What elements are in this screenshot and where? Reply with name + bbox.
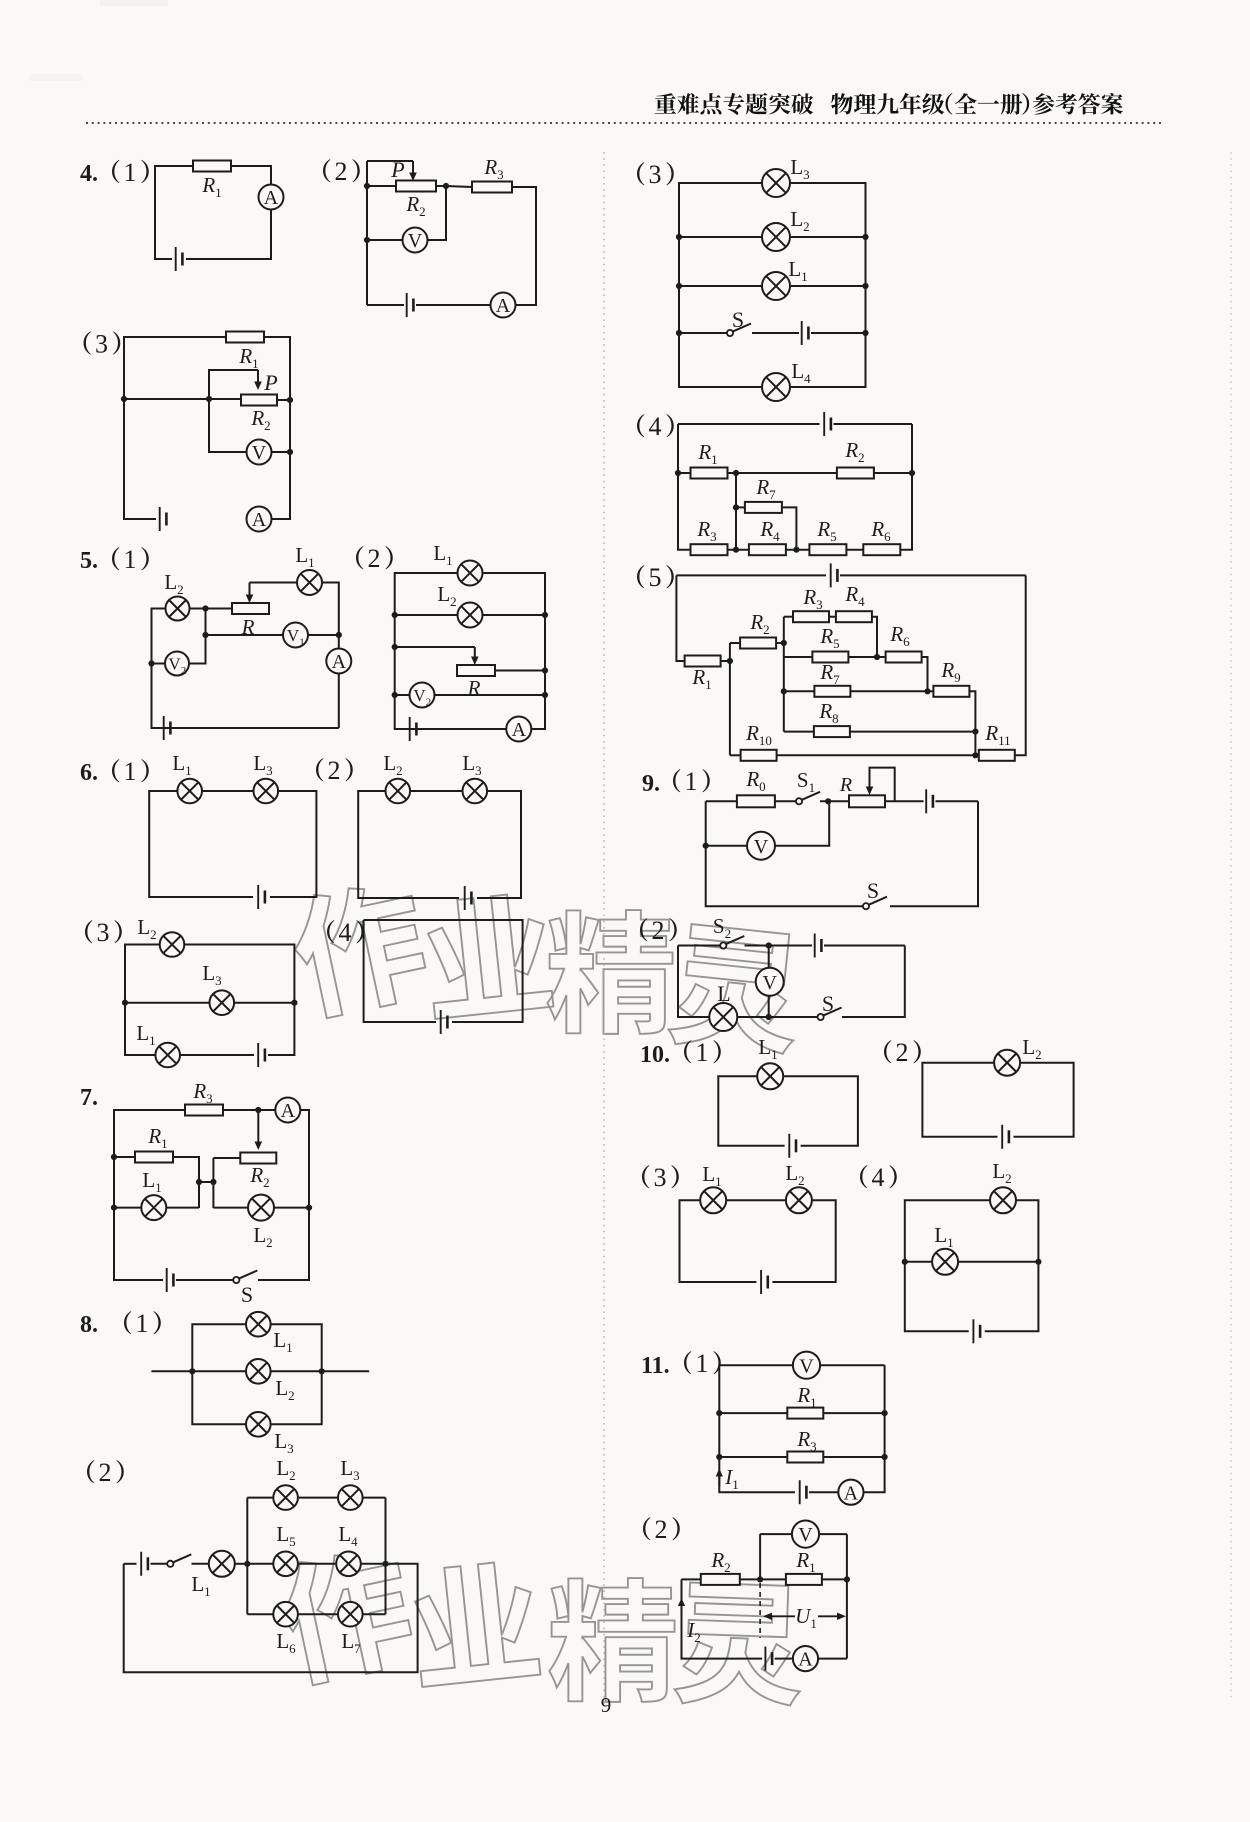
node [202, 632, 208, 638]
svg-text:2: 2 [181, 665, 187, 677]
outer loop [395, 573, 545, 729]
svg-text:8.: 8. [80, 1312, 98, 1338]
resistor R7 [745, 502, 782, 513]
battery [258, 885, 265, 909]
svg-text:4: 4 [872, 1163, 885, 1192]
wire to voltmeter [209, 399, 246, 452]
wire [483, 614, 546, 616]
wire [395, 694, 410, 696]
ammeter A [838, 1480, 863, 1505]
svg-text:2: 2 [99, 1458, 112, 1487]
wire [367, 239, 403, 241]
right side [790, 183, 866, 387]
svg-text:6.: 6. [80, 760, 98, 786]
header title 重难点专题突破 物理九年级(全一册)参考答案 [655, 93, 1123, 115]
wire [192, 1563, 209, 1565]
svg-text:1: 1 [136, 1309, 149, 1338]
slider arrow [246, 583, 254, 604]
wire [230, 166, 271, 185]
node [364, 237, 370, 243]
lamp L3 [210, 990, 235, 1015]
left loop [114, 1110, 185, 1280]
node [882, 1410, 888, 1416]
battery [141, 1552, 148, 1576]
item 10 (2) [884, 1038, 921, 1067]
top wire left [678, 423, 820, 425]
wire [427, 186, 446, 240]
node [675, 470, 681, 476]
ammeter A [247, 507, 272, 532]
wire V bottom [768, 996, 770, 1017]
svg-text:V: V [252, 442, 267, 464]
svg-text:1: 1 [124, 545, 137, 574]
resistor R rheostat [849, 795, 885, 807]
wire [721, 660, 730, 662]
wire [308, 634, 339, 636]
loop left [680, 1200, 757, 1282]
svg-text:4.: 4. [80, 161, 98, 187]
wire [367, 160, 413, 162]
voltmeter V2 [165, 652, 189, 678]
resistor R6 [863, 544, 900, 555]
wire [820, 800, 849, 802]
voltmeter V1 [283, 623, 308, 649]
wire to slider [209, 370, 258, 399]
resistor R3 [691, 544, 728, 555]
wire [885, 800, 924, 802]
wire [811, 332, 866, 334]
ammeter A [275, 1098, 300, 1123]
wire V top [768, 946, 770, 968]
item 5 (2) [356, 544, 393, 573]
resistor R5 [809, 544, 846, 555]
resistor R7 [814, 686, 850, 697]
lamp L1 [209, 1551, 235, 1577]
wire [706, 845, 747, 847]
watermark 作业精灵 (middle) [285, 875, 805, 1056]
node [287, 397, 293, 403]
switch S [863, 897, 887, 910]
lamp L5 [273, 1552, 298, 1577]
right vertical [844, 946, 905, 1018]
wire [784, 656, 812, 658]
node [844, 1576, 850, 1582]
battery [973, 1319, 980, 1343]
jumper [199, 1181, 213, 1183]
battery [407, 293, 414, 317]
wire [824, 945, 905, 947]
lamp L4 [762, 373, 790, 401]
wire [338, 674, 340, 729]
node [766, 942, 772, 948]
ammeter A [506, 717, 531, 742]
slider arrow P [409, 161, 417, 181]
wire [114, 1156, 135, 1158]
wire [364, 920, 523, 1022]
node [972, 752, 978, 758]
svg-text:S: S [822, 991, 834, 1016]
lamp L3 [253, 779, 278, 804]
battery [926, 789, 933, 813]
node [392, 644, 398, 650]
resistor R2 [740, 638, 776, 649]
left side [679, 183, 762, 387]
item 6 (2) [316, 756, 353, 785]
svg-text:5: 5 [649, 563, 662, 592]
svg-text:A: A [512, 719, 527, 741]
U1 annotation [763, 1613, 846, 1620]
node [676, 330, 682, 336]
node [757, 1576, 763, 1582]
left vertical [678, 946, 709, 1018]
item 6 (3) [85, 918, 122, 947]
wire [936, 800, 979, 802]
wire [834, 423, 913, 425]
svg-text:2: 2 [328, 756, 341, 785]
wire [719, 1456, 787, 1458]
svg-text:P: P [263, 370, 277, 395]
slider arrow P [254, 370, 262, 390]
svg-text:A: A [798, 1649, 813, 1671]
wire [186, 210, 271, 259]
current arrow I1 [716, 1469, 723, 1487]
wire [155, 166, 194, 259]
node [121, 396, 127, 402]
switch S [233, 1271, 257, 1284]
svg-text:V: V [754, 836, 769, 858]
right vertical [1015, 575, 1026, 755]
resistor R4 [749, 544, 786, 555]
wire [790, 236, 866, 238]
middle wire right [271, 1370, 370, 1372]
lamp L4 [336, 1552, 361, 1577]
ammeter A [793, 1646, 818, 1671]
node [148, 660, 154, 666]
voltmeter V [747, 832, 775, 860]
node [716, 1410, 722, 1416]
wire [678, 945, 720, 947]
resistor R0 [737, 795, 775, 807]
wire [737, 1016, 817, 1018]
wire V up [775, 801, 829, 845]
battery [765, 1647, 772, 1671]
svg-text:11.: 11. [641, 1353, 670, 1379]
wire [727, 549, 748, 551]
resistor R8 [814, 726, 850, 737]
lamp L2 [990, 1187, 1016, 1213]
battery [410, 717, 417, 741]
wire [786, 549, 809, 551]
battery [815, 934, 822, 958]
wire R9 down [969, 691, 975, 755]
resistor R1 [787, 1408, 823, 1419]
svg-text:S: S [867, 878, 879, 903]
resistor R3 [793, 611, 829, 622]
top wire [676, 574, 826, 576]
wire [361, 1563, 386, 1565]
item 10 (1) [640, 1038, 721, 1068]
lamp L3 [246, 1412, 271, 1437]
resistor R6 [886, 652, 922, 663]
node [306, 1205, 312, 1211]
battery [176, 247, 183, 271]
resistor R2 [396, 181, 436, 192]
lamp L1 [141, 1195, 166, 1220]
wire [166, 1207, 199, 1209]
loop right [1014, 1063, 1074, 1137]
svg-text:5.: 5. [80, 548, 98, 574]
svg-text:3: 3 [95, 329, 108, 358]
svg-text:9.: 9. [642, 771, 660, 797]
node [542, 692, 548, 698]
wire [682, 1578, 701, 1580]
lamp L1 [297, 570, 322, 595]
wire [366, 161, 368, 305]
node [882, 1454, 888, 1460]
wire [823, 1456, 884, 1458]
wire [775, 800, 796, 802]
wire [760, 1533, 792, 1535]
svg-text:A: A [844, 1482, 859, 1504]
item 7 [80, 1085, 98, 1111]
wire [477, 791, 521, 898]
wire to slider [395, 646, 475, 648]
node [291, 1000, 297, 1006]
resistor R2 [240, 1153, 276, 1164]
wire [840, 574, 1026, 576]
header dashed rule [86, 122, 1163, 124]
node [196, 1179, 202, 1185]
item 10 (3) [642, 1163, 679, 1192]
wire R7 down [782, 507, 797, 549]
left vertical [678, 424, 691, 550]
node [364, 183, 370, 189]
item 8 (4) [637, 412, 674, 441]
item 10 (4) [860, 1163, 897, 1192]
svg-text:2: 2 [896, 1038, 909, 1067]
wire to V1 [206, 609, 284, 636]
loop [358, 791, 459, 898]
wire [298, 1613, 338, 1615]
resistor R3 [185, 1105, 223, 1116]
node [206, 396, 212, 402]
item 9 (1) [642, 767, 710, 797]
wire [235, 1563, 248, 1565]
wire [176, 1279, 233, 1281]
resistor R1 [193, 161, 231, 172]
wire [726, 1199, 786, 1201]
item 4 (3) [84, 329, 121, 358]
wire [363, 1613, 386, 1615]
item 4 (1) [80, 158, 149, 187]
lamp L3 [338, 1485, 363, 1510]
lamp L1 [932, 1249, 958, 1275]
resistor R3 [787, 1452, 823, 1463]
node [542, 612, 548, 618]
wire [679, 236, 762, 238]
lamp L [709, 1003, 737, 1031]
svg-text:1: 1 [696, 1349, 709, 1378]
resistor R5 [812, 652, 848, 663]
node [825, 798, 831, 804]
svg-text:V: V [413, 686, 426, 705]
node [733, 470, 739, 476]
lamp L2 [994, 1050, 1020, 1076]
vertical B [783, 617, 785, 732]
wire [298, 1563, 336, 1565]
node [733, 547, 739, 553]
svg-text:A: A [264, 187, 279, 209]
svg-text:1: 1 [696, 1038, 709, 1067]
right margin dotted line [1230, 152, 1232, 1700]
node [122, 1000, 128, 1006]
right vertical [846, 1534, 848, 1659]
battery [441, 1010, 448, 1034]
node [716, 1454, 722, 1460]
lamp L1 [762, 272, 790, 300]
wire [730, 754, 741, 756]
node [210, 1179, 216, 1185]
resistor R3 [472, 182, 512, 193]
wire [114, 1207, 141, 1209]
scan smudge top-left [100, 0, 168, 6]
wire [363, 1497, 386, 1499]
wire [264, 337, 290, 519]
wire [364, 920, 436, 1022]
lamp L2 [166, 597, 190, 621]
wire [775, 1658, 793, 1660]
dashed line U1 [759, 1583, 761, 1638]
lamp L1 [246, 1312, 271, 1337]
svg-text:V: V [799, 1355, 814, 1377]
svg-text:A: A [252, 509, 267, 531]
node [255, 1107, 261, 1113]
wire [809, 1491, 838, 1493]
wire [416, 304, 491, 306]
svg-text:1: 1 [124, 757, 137, 786]
item 6 (1) [80, 757, 149, 786]
wire [247, 1563, 273, 1565]
wire [367, 185, 396, 187]
resistor R11 [979, 750, 1015, 761]
battery [831, 563, 838, 587]
wire V2 up [189, 635, 206, 664]
wire [740, 1578, 786, 1580]
wire [213, 1157, 240, 1159]
node [874, 654, 880, 660]
wire R6 down [922, 657, 928, 691]
slider arrow [866, 772, 874, 795]
wire [784, 616, 793, 618]
wire [270, 791, 316, 897]
item 8 (1) [80, 1309, 161, 1338]
switch S [818, 1008, 842, 1021]
wire [395, 614, 458, 616]
item 8 (5) [637, 563, 674, 592]
node [111, 1205, 117, 1211]
ammeter A [259, 185, 284, 210]
item 5 (1) [80, 545, 149, 574]
ammeter A [326, 649, 351, 674]
node [189, 1368, 195, 1374]
column divider dotted line [603, 152, 605, 1705]
wire [247, 1613, 273, 1615]
left vertical [719, 1365, 795, 1492]
middle vertical [735, 473, 737, 550]
wire [679, 285, 762, 287]
wire [435, 694, 546, 696]
svg-text:V: V [798, 1524, 813, 1546]
svg-text:S: S [241, 1282, 253, 1307]
wire slider to L1 [250, 582, 298, 584]
node [909, 470, 915, 476]
lamp L1 [458, 561, 483, 586]
inner right vertical [385, 1498, 387, 1615]
node [443, 183, 449, 189]
wire [151, 1563, 168, 1565]
voltmeter V2 [410, 683, 435, 709]
wire [790, 285, 866, 287]
node [703, 843, 709, 849]
resistor R [232, 603, 269, 614]
right vertical [901, 424, 912, 550]
node [319, 1368, 325, 1374]
svg-text:2: 2 [335, 157, 348, 186]
wire [223, 1109, 275, 1111]
svg-text:S: S [732, 307, 744, 332]
slider arrow [255, 1110, 263, 1150]
vertical A [729, 643, 731, 755]
node [382, 1561, 388, 1567]
svg-text:3: 3 [654, 1163, 667, 1192]
wire [298, 1497, 338, 1499]
svg-text:1: 1 [685, 767, 698, 796]
node [202, 605, 208, 611]
wire [752, 332, 799, 334]
switch S [727, 324, 751, 337]
wire [152, 663, 166, 665]
item 8 (2) [87, 1458, 124, 1487]
battery [167, 1268, 174, 1292]
wire [820, 1364, 885, 1366]
lamp L1 [177, 779, 202, 804]
node [793, 547, 799, 553]
svg-text:V: V [408, 230, 423, 252]
svg-text:V: V [168, 655, 181, 674]
voltmeter V [793, 1352, 820, 1379]
wire [213, 1207, 248, 1209]
resistor R [457, 665, 495, 676]
node [781, 640, 787, 646]
svg-text:2: 2 [655, 1515, 668, 1544]
right loop [262, 1110, 309, 1280]
switch S swich [167, 1554, 191, 1567]
loop left [905, 1200, 990, 1331]
node [542, 667, 548, 673]
resistor R9 [933, 686, 969, 697]
battery [258, 1043, 265, 1067]
wire R4 down [872, 617, 877, 657]
loop right [783, 1076, 858, 1146]
wire [125, 1002, 210, 1004]
svg-text:2: 2 [652, 916, 665, 945]
left side [192, 1324, 246, 1424]
item 11 (2) [643, 1515, 680, 1544]
svg-text:7.: 7. [80, 1085, 98, 1111]
wire [784, 690, 814, 692]
node [862, 283, 868, 289]
resistor R2 [837, 468, 874, 479]
